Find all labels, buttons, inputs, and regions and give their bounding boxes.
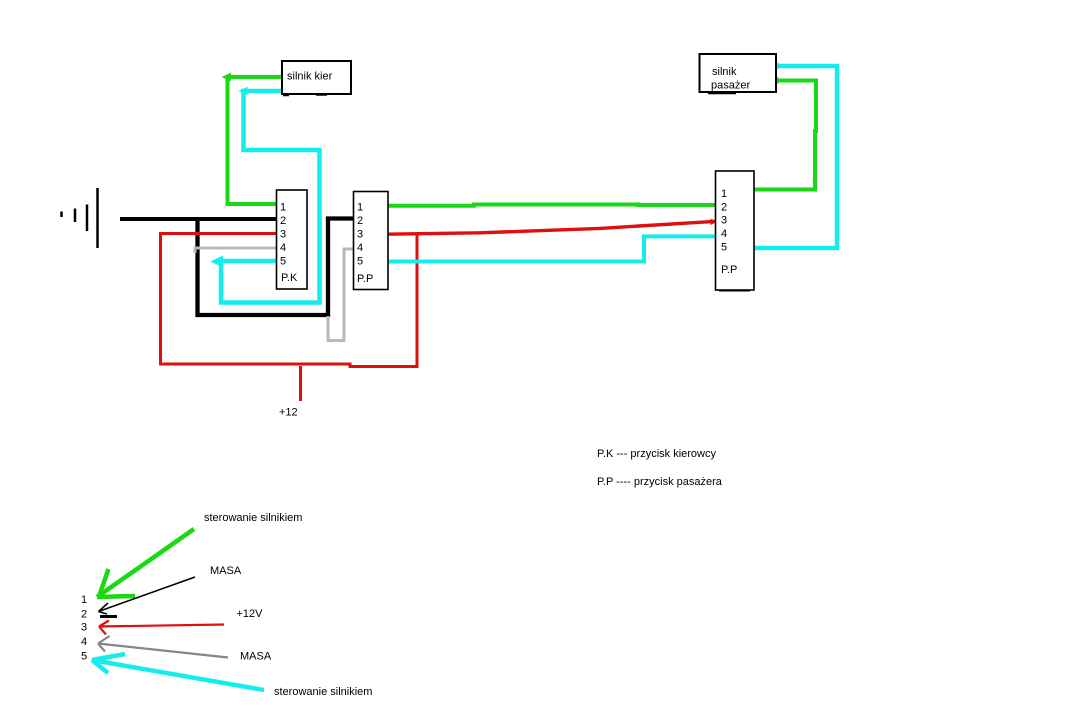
svg-text:2: 2 [721, 202, 727, 214]
legend red arrow +12V [99, 621, 224, 635]
svg-text:2: 2 [357, 215, 363, 227]
svg-text:silnik kier: silnik kier [287, 71, 333, 83]
wire: black ground wire to P.K pin 2 [120, 217, 276, 221]
svg-text:3: 3 [721, 215, 727, 227]
svg-text:2: 2 [81, 609, 87, 621]
wire: cyan P.P middle pin 5 to P.P right pin 4 [388, 236, 715, 261]
svg-text:3: 3 [357, 229, 363, 241]
svg-text:2: 2 [280, 215, 286, 227]
wire: gray to P.K pin 4 [195, 248, 276, 253]
svg-text:4: 4 [357, 242, 363, 254]
svg-text:sterowanie silnikiem: sterowanie silnikiem [274, 686, 372, 698]
svg-text:MASA: MASA [210, 565, 242, 577]
wire: red P.P middle pin 3 to P.P right pin 3 [387, 219, 718, 235]
legend cyan arrow sterowanie silnikiem [92, 654, 264, 690]
wire: cyan from silnik pasazer to P.P right pin 5 [754, 63, 837, 249]
ground symbol [62, 188, 98, 248]
svg-text:4: 4 [280, 242, 286, 254]
svg-text:P.P ---- przycisk pasażera: P.P ---- przycisk pasażera [597, 476, 723, 488]
svg-text:P.K: P.K [281, 272, 298, 284]
connector P.P middle [354, 192, 389, 290]
wire: green P.P middle pin 2 to P.P right pin 2 [386, 205, 715, 206]
legend gray arrow MASA [98, 636, 228, 658]
legend pin numbers [81, 594, 87, 663]
svg-text:+12: +12 [279, 407, 298, 419]
connector P.K [277, 190, 308, 289]
wire: gray from black corner to P.P middle pin 4 [328, 249, 353, 341]
svg-text:pasażer: pasażer [711, 80, 750, 92]
legend black arrow MASA [99, 577, 196, 617]
wire: red +12 stub [299, 366, 302, 401]
svg-text:1: 1 [280, 202, 286, 214]
svg-text:MASA: MASA [240, 651, 272, 663]
svg-text:4: 4 [721, 228, 727, 240]
connector P.P right [716, 171, 755, 291]
svg-text:5: 5 [280, 256, 286, 268]
svg-text:1: 1 [721, 188, 727, 200]
svg-text:4: 4 [81, 636, 87, 648]
svg-text:1: 1 [81, 594, 87, 606]
legend green arrow sterowanie silnikiem [97, 529, 194, 597]
svg-text:5: 5 [721, 242, 727, 254]
motor box silnik pasazer [700, 54, 777, 94]
wire: green from silnik kier to P.K pin 1 [222, 73, 283, 204]
svg-text:P.P: P.P [721, 264, 737, 276]
motor box silnik kier [282, 61, 351, 96]
svg-text:P.P: P.P [357, 273, 373, 285]
svg-text:+12V: +12V [237, 608, 264, 620]
wire: black branch to P.P middle pin 2 [198, 219, 354, 316]
svg-text:P.K --- przycisk kierowcy: P.K --- przycisk kierowcy [597, 448, 716, 460]
wire: green from silnik pasazer to P.P right pin 1 [754, 77, 816, 190]
svg-text:5: 5 [81, 651, 87, 663]
svg-text:5: 5 [357, 256, 363, 268]
svg-text:1: 1 [357, 202, 363, 214]
wire: red +12 wire to P.K pin 3 [161, 232, 418, 367]
svg-text:3: 3 [280, 229, 286, 241]
svg-text:sterowanie silnikiem: sterowanie silnikiem [204, 512, 302, 524]
wire: cyan from silnik kier to P.K pin 5 [211, 87, 320, 303]
svg-text:silnik: silnik [712, 66, 737, 78]
svg-text:3: 3 [81, 622, 87, 634]
